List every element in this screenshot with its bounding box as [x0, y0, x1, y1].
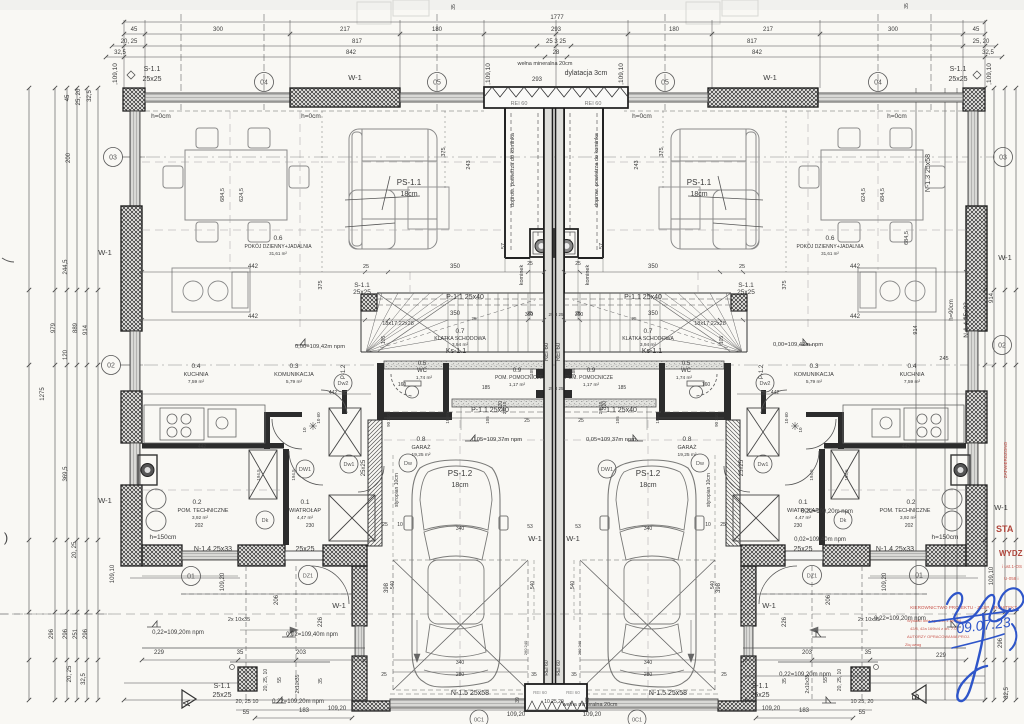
- svg-text:styropian 10cm: styropian 10cm: [706, 473, 712, 507]
- svg-text:DZ1: DZ1: [303, 574, 313, 580]
- svg-text:55: 55: [277, 677, 283, 683]
- svg-text:979: 979: [51, 322, 57, 333]
- svg-text:0,05=109,37m npm: 0,05=109,37m npm: [586, 437, 636, 443]
- wall: top lintel/window band N-1.1: [145, 93, 290, 102]
- svg-text:442: 442: [771, 390, 780, 396]
- center mineral wool band: [484, 87, 628, 108]
- svg-text:350: 350: [575, 312, 584, 318]
- wall: top lintel band N-1.2: [400, 93, 484, 102]
- svg-text:229: 229: [936, 653, 947, 659]
- wall: garage SW corner block: [352, 701, 390, 711]
- grid circles right: [994, 148, 1013, 167]
- svg-text:25x25: 25x25: [142, 76, 161, 83]
- svg-text:WC: WC: [681, 368, 692, 374]
- svg-text:5,79 m²: 5,79 m²: [806, 379, 823, 385]
- svg-text:4,47 m²: 4,47 m²: [297, 515, 314, 521]
- svg-text:25x25: 25x25: [361, 459, 367, 476]
- svg-text:280: 280: [456, 672, 465, 678]
- porch dashed outline + steps: [142, 566, 420, 700]
- svg-text:300: 300: [213, 27, 224, 33]
- interior: partition wiatrolap/garage: [368, 420, 382, 546]
- wall: left exterior: [130, 111, 140, 206]
- svg-text:,109,10: ,109,10: [618, 63, 625, 85]
- svg-text:25: 25: [381, 672, 387, 678]
- svg-text:202: 202: [905, 523, 914, 529]
- svg-text:296: 296: [998, 637, 1004, 648]
- svg-text:55: 55: [859, 710, 866, 716]
- svg-text:doprow. powietrza do kominka: doprow. powietrza do kominka: [510, 132, 516, 207]
- grid axis circles top: [255, 73, 274, 92]
- svg-text:203: 203: [802, 650, 813, 656]
- svg-text:GARAŻ: GARAŻ: [678, 444, 698, 451]
- svg-text:340: 340: [456, 526, 465, 532]
- interior: wall pom.tech/wiatrolap: [283, 449, 289, 545]
- svg-text:226: 226: [318, 616, 324, 627]
- svg-text:0.1: 0.1: [798, 499, 807, 506]
- svg-text:624,5: 624,5: [239, 188, 245, 202]
- svg-text:340: 340: [644, 526, 653, 532]
- svg-text:KOMUNIKACJA: KOMUNIKACJA: [274, 372, 314, 378]
- svg-text:194,5: 194,5: [291, 469, 296, 481]
- svg-text:160: 160: [702, 382, 711, 388]
- garage parking cross: [393, 560, 528, 690]
- svg-text:03: 03: [109, 155, 117, 162]
- svg-text:1777: 1777: [550, 15, 564, 21]
- interior: L wall komunikacja: [264, 412, 270, 449]
- svg-text:109,20: 109,20: [882, 572, 888, 591]
- svg-text:dylatacja 3cm: dylatacja 3cm: [565, 70, 608, 77]
- svg-text:0.9: 0.9: [513, 368, 522, 374]
- washing machine: [138, 455, 157, 485]
- svg-text:442: 442: [329, 390, 338, 396]
- svg-text:25: 25: [575, 261, 581, 267]
- svg-text:h=150cm: h=150cm: [150, 534, 177, 541]
- svg-text:20, 25, 10: 20, 25, 10: [837, 669, 843, 691]
- svg-text:10 60: 10 60: [316, 412, 321, 424]
- svg-text:296: 296: [83, 628, 89, 639]
- svg-text:105: 105: [571, 368, 576, 376]
- svg-text:35: 35: [865, 650, 872, 656]
- svg-text:25x25: 25x25: [793, 546, 812, 553]
- svg-text:3,92 m²: 3,92 m²: [192, 515, 209, 521]
- svg-text:B: B: [911, 693, 922, 700]
- svg-text:260 240: 260 240: [523, 640, 528, 655]
- interior: wall x344: [342, 390, 347, 414]
- svg-text:0.6: 0.6: [825, 235, 834, 242]
- laundry tubs: [146, 489, 166, 509]
- svg-text:POM. TECHNICZNE: POM. TECHNICZNE: [880, 508, 931, 514]
- svg-text:0,02=109,40m npm: 0,02=109,40m npm: [794, 537, 846, 543]
- svg-text:A: A: [182, 699, 193, 706]
- svg-text:kominek: kominek: [519, 265, 525, 286]
- svg-text:Dw2: Dw2: [337, 381, 348, 387]
- svg-text:01: 01: [187, 574, 195, 581]
- svg-text:PS-1.1: PS-1.1: [687, 178, 712, 187]
- svg-text:POM. TECHNICZNE: POM. TECHNICZNE: [178, 508, 229, 514]
- svg-text:442: 442: [902, 444, 911, 450]
- svg-text:540: 540: [530, 581, 536, 590]
- svg-text:350: 350: [450, 311, 461, 317]
- svg-text:REI 60: REI 60: [544, 660, 550, 676]
- svg-text:350: 350: [648, 264, 659, 270]
- svg-text:0.2: 0.2: [906, 499, 915, 506]
- svg-text:105: 105: [529, 368, 534, 376]
- svg-text:25, 20: 25, 20: [76, 88, 82, 105]
- svg-text:W-1: W-1: [998, 253, 1012, 262]
- svg-text:S-1.1: S-1.1: [738, 282, 754, 289]
- wall: garage door lintel N-1.5: [390, 699, 527, 708]
- svg-text:185: 185: [618, 385, 627, 391]
- svg-text:39: 39: [515, 697, 521, 703]
- svg-text:296: 296: [63, 628, 69, 639]
- dashed lintel line under top wall: [145, 110, 484, 112]
- svg-text:h=0cm: h=0cm: [632, 113, 652, 120]
- construction dashed lines living room: [142, 111, 544, 698]
- svg-text:10 60: 10 60: [445, 412, 450, 424]
- svg-text:W-1: W-1: [566, 534, 580, 543]
- svg-text:0C1: 0C1: [474, 718, 484, 724]
- svg-text:0,22=109,20m npm: 0,22=109,20m npm: [874, 616, 926, 622]
- svg-text:styropian 10cm: styropian 10cm: [394, 473, 400, 507]
- svg-text:S-1.1: S-1.1: [752, 683, 769, 690]
- svg-text:5,79 m²: 5,79 m²: [286, 379, 303, 385]
- svg-text:109,10: 109,10: [110, 564, 116, 583]
- svg-text:doprow. powietrza do kominka: doprow. powietrza do kominka: [594, 132, 600, 207]
- DZ1 door circles: [299, 566, 318, 585]
- svg-text:Dw: Dw: [696, 461, 704, 467]
- svg-text:25: 25: [720, 522, 726, 528]
- svg-text:25x25: 25x25: [739, 459, 745, 476]
- door arcs: [272, 374, 413, 604]
- svg-text:0.7: 0.7: [643, 328, 652, 335]
- svg-text:POKÓJ DZIENNY+JADALNIA: POKÓJ DZIENNY+JADALNIA: [244, 243, 312, 250]
- svg-text:90 210: 90 210: [386, 413, 391, 427]
- svg-text:375: 375: [659, 147, 665, 156]
- svg-text:P-1.2: P-1.2: [759, 364, 765, 379]
- svg-text:Dw1: Dw1: [343, 462, 354, 468]
- svg-text:10,25,20: 10,25,20: [544, 699, 564, 705]
- coffee table: [408, 187, 449, 229]
- svg-text:N-1.5 25x58: N-1.5 25x58: [649, 690, 687, 697]
- wall: stippled stairs/wc divider: [384, 361, 544, 369]
- svg-text:245: 245: [939, 356, 948, 362]
- svg-text:35: 35: [904, 3, 910, 9]
- top dimension lines: [104, 20, 1004, 88]
- svg-text:25: 25: [471, 316, 477, 321]
- svg-text:217: 217: [340, 27, 351, 33]
- svg-text:,109,10: ,109,10: [112, 63, 119, 85]
- svg-text:DZ1: DZ1: [807, 574, 817, 580]
- svg-text:h=90cm: h=90cm: [949, 299, 955, 321]
- level mark triangles: [147, 339, 479, 703]
- chimney shaft walls by party wall: [505, 107, 544, 293]
- svg-text:18cm: 18cm: [400, 191, 417, 198]
- svg-text:25: 25: [739, 264, 745, 270]
- svg-text:442: 442: [248, 314, 259, 320]
- svg-text:Złą uwag: Złą uwag: [905, 642, 921, 647]
- svg-text:10: 10: [302, 427, 307, 433]
- svg-text:45: 45: [65, 94, 71, 101]
- porch pillar S-1.1: [238, 667, 257, 691]
- svg-text:POM. POMOCNICZE: POM. POMOCNICZE: [495, 375, 544, 381]
- svg-text:wełna mineralna 20cm: wełna mineralna 20cm: [516, 61, 572, 67]
- svg-text:W-1: W-1: [332, 601, 346, 610]
- svg-text:260 240: 260 240: [577, 640, 582, 655]
- svg-text:04: 04: [260, 80, 268, 87]
- svg-text:1275: 1275: [40, 387, 46, 401]
- svg-text:32,5: 32,5: [1004, 687, 1010, 699]
- svg-text:03: 03: [999, 155, 1007, 162]
- svg-text:25 3 25: 25 3 25: [546, 39, 567, 45]
- svg-text:h=0cm: h=0cm: [887, 113, 907, 120]
- grid circles left: [104, 148, 123, 167]
- svg-text:55: 55: [243, 710, 250, 716]
- svg-text:U-058 i: U-058 i: [1004, 576, 1019, 581]
- svg-text:Dk: Dk: [840, 518, 847, 524]
- svg-text:35: 35: [237, 650, 244, 656]
- svg-text:375: 375: [318, 280, 324, 289]
- party wall left leaf: [544, 107, 553, 684]
- svg-text:31,61 m²: 31,61 m²: [269, 251, 287, 256]
- svg-text:105: 105: [485, 416, 490, 424]
- svg-text:35: 35: [318, 678, 324, 684]
- svg-text:S-1.1: S-1.1: [950, 66, 967, 73]
- svg-text:25: 25: [578, 418, 584, 424]
- svg-text:0.3: 0.3: [809, 363, 818, 370]
- interior dimension lines: [140, 111, 546, 672]
- svg-text:200: 200: [66, 152, 72, 163]
- svg-text:KLATKA SCHODOWA: KLATKA SCHODOWA: [622, 336, 674, 342]
- svg-text:S-1.1: S-1.1: [144, 66, 161, 73]
- svg-text:KUCHNIA: KUCHNIA: [184, 372, 209, 378]
- svg-text:0,22=109,20m npm: 0,22=109,20m npm: [272, 699, 324, 705]
- svg-text:05: 05: [661, 80, 669, 87]
- svg-text:18cm: 18cm: [690, 191, 707, 198]
- svg-text:0.6: 0.6: [273, 235, 282, 242]
- svg-text:350: 350: [450, 264, 461, 270]
- svg-text:202: 202: [195, 523, 204, 529]
- svg-text:340: 340: [644, 660, 653, 666]
- svg-text:7,59 m²: 7,59 m²: [904, 379, 921, 385]
- svg-text:0.9: 0.9: [587, 368, 596, 374]
- svg-text:1,74 m²: 1,74 m²: [416, 375, 433, 381]
- svg-text:19,25 m²: 19,25 m²: [678, 452, 697, 458]
- svg-text:,109,10: ,109,10: [986, 63, 993, 85]
- svg-text:684,5: 684,5: [904, 231, 910, 245]
- svg-text:): ): [4, 530, 8, 545]
- svg-text:W-1: W-1: [994, 503, 1008, 512]
- svg-text:25: 25: [527, 261, 533, 267]
- svg-text:25x25: 25x25: [353, 289, 371, 296]
- svg-text:2x10x35: 2x10x35: [295, 674, 301, 693]
- svg-text:REI 60: REI 60: [556, 342, 562, 361]
- svg-text:0.5: 0.5: [682, 361, 691, 367]
- svg-text:S-1.1: S-1.1: [214, 683, 231, 690]
- svg-text:540: 540: [570, 581, 576, 590]
- svg-text:10: 10: [705, 522, 711, 528]
- svg-text:25: 25: [524, 418, 530, 424]
- svg-text:914: 914: [83, 324, 89, 335]
- svg-text:105: 105: [615, 416, 620, 424]
- svg-text:183: 183: [799, 708, 810, 714]
- svg-text:N-1.3 25x58: N-1.3 25x58: [925, 154, 932, 192]
- svg-text:25, 20: 25, 20: [973, 39, 990, 45]
- svg-text:842: 842: [752, 50, 763, 56]
- svg-text:243: 243: [634, 160, 640, 169]
- svg-text:109,20: 109,20: [220, 572, 226, 591]
- svg-text:18cm: 18cm: [451, 482, 468, 489]
- svg-text:914: 914: [989, 292, 995, 303]
- svg-text:25: 25: [631, 316, 637, 321]
- party wall footing block: [525, 684, 587, 711]
- svg-text:25x25: 25x25: [948, 76, 967, 83]
- svg-text:684,5: 684,5: [220, 188, 226, 202]
- svg-text:0.8: 0.8: [416, 436, 425, 443]
- svg-text:,109,10: ,109,10: [485, 63, 492, 85]
- svg-text:217: 217: [763, 27, 774, 33]
- svg-text:4,47 m²: 4,47 m²: [795, 515, 812, 521]
- svg-text:32,5: 32,5: [982, 50, 994, 56]
- svg-text:18x17,22x28: 18x17,22x28: [382, 321, 414, 327]
- svg-text:KUCHNIA: KUCHNIA: [900, 372, 925, 378]
- blue signature: [929, 588, 1023, 701]
- svg-text:WIATROŁAP: WIATROŁAP: [787, 508, 819, 514]
- svg-text:230: 230: [306, 523, 315, 529]
- dining table with chairs: [163, 128, 309, 242]
- svg-text:REI 60: REI 60: [511, 101, 528, 107]
- svg-text:25: 25: [382, 522, 388, 528]
- svg-text:914: 914: [913, 325, 919, 334]
- svg-text:53: 53: [575, 524, 581, 530]
- svg-text:WYDZ: WYDZ: [999, 549, 1023, 558]
- svg-text:251: 251: [73, 628, 79, 639]
- svg-text:REI 60: REI 60: [533, 690, 547, 695]
- svg-text:183: 183: [299, 708, 310, 714]
- vent shaft squares with X: [249, 408, 375, 541]
- svg-text:0.3: 0.3: [289, 363, 298, 370]
- svg-text:POKÓJ DZIENNY+JADALNIA: POKÓJ DZIENNY+JADALNIA: [796, 243, 864, 250]
- svg-text:624,5: 624,5: [861, 188, 867, 202]
- svg-text:293: 293: [551, 27, 562, 33]
- grid axis dashed verticals: [181, 14, 931, 110]
- sofa: [349, 129, 437, 249]
- svg-text:PS-1.1: PS-1.1: [397, 178, 422, 187]
- svg-text:10 60: 10 60: [784, 412, 789, 424]
- svg-text:398: 398: [716, 582, 722, 593]
- svg-text:90 210: 90 210: [714, 413, 719, 427]
- svg-text:109,20: 109,20: [507, 712, 526, 718]
- svg-text:350: 350: [648, 311, 659, 317]
- svg-text:REI 60: REI 60: [544, 342, 550, 361]
- svg-text:W-1: W-1: [348, 73, 362, 82]
- stair treads: [366, 293, 535, 352]
- svg-text:25 3 25: 25 3 25: [548, 386, 564, 391]
- svg-text:57: 57: [501, 243, 507, 249]
- toilet: [404, 381, 421, 386]
- svg-text:2,5 10: 2,5 10: [598, 401, 603, 414]
- svg-text:280: 280: [644, 672, 653, 678]
- svg-text:0.8: 0.8: [682, 436, 691, 443]
- svg-text:1,74 m²: 1,74 m²: [676, 375, 693, 381]
- svg-text:442: 442: [198, 444, 207, 450]
- svg-text:25x25: 25x25: [750, 692, 769, 699]
- svg-text:KOMUNIKACJA: KOMUNIKACJA: [794, 372, 834, 378]
- faint furniture scan artifacts top: [357, 0, 758, 24]
- wc partition walls: [377, 363, 384, 420]
- svg-text:25x25: 25x25: [295, 546, 314, 553]
- svg-text:842: 842: [346, 50, 357, 56]
- wall: stippled wc/garage divider: [452, 399, 544, 407]
- svg-text:206: 206: [826, 594, 832, 605]
- svg-text:W-1: W-1: [763, 73, 777, 82]
- svg-text:2x 10x35: 2x 10x35: [228, 617, 250, 623]
- svg-text:300: 300: [888, 27, 899, 33]
- svg-text:h=150cm: h=150cm: [932, 534, 959, 541]
- svg-text:P-1.1 25x40: P-1.1 25x40: [446, 294, 484, 301]
- svg-text:kominek: kominek: [585, 265, 591, 286]
- svg-text:442: 442: [850, 314, 861, 320]
- svg-text:340: 340: [456, 660, 465, 666]
- svg-text:0,00=109,42m npm: 0,00=109,42m npm: [295, 344, 345, 350]
- svg-text:05: 05: [433, 80, 441, 87]
- svg-text:0.1: 0.1: [300, 499, 309, 506]
- svg-text:h=0cm: h=0cm: [151, 113, 171, 120]
- stair enclosure lines: [361, 293, 544, 352]
- svg-text:18x17,22x28: 18x17,22x28: [694, 321, 726, 327]
- svg-text:W-1: W-1: [98, 248, 112, 257]
- svg-text:45: 45: [973, 27, 980, 33]
- svg-text:0,02=109,40m npm: 0,02=109,40m npm: [286, 632, 338, 638]
- svg-text:817: 817: [747, 39, 758, 45]
- svg-text:2,5 10: 2,5 10: [502, 401, 507, 414]
- svg-text:20, 25 10: 20, 25 10: [236, 699, 259, 705]
- svg-text:10: 10: [798, 427, 803, 433]
- svg-text:Dk: Dk: [262, 518, 269, 524]
- svg-text:244,5: 244,5: [63, 259, 69, 275]
- svg-text:0.4: 0.4: [907, 363, 916, 370]
- svg-text:32,5: 32,5: [114, 50, 126, 56]
- svg-text:Dw2: Dw2: [759, 381, 770, 387]
- kitchen island block: [172, 268, 250, 312]
- svg-text:105: 105: [719, 336, 725, 345]
- svg-text:W-1: W-1: [98, 496, 112, 505]
- svg-text:889: 889: [73, 322, 79, 333]
- svg-text:120: 120: [63, 349, 69, 360]
- svg-text:DW1: DW1: [601, 467, 613, 473]
- svg-text:WC: WC: [417, 368, 428, 374]
- svg-text:N-1.4 25x33: N-1.4 25x33: [194, 546, 232, 553]
- svg-text:25x25: 25x25: [737, 289, 755, 296]
- svg-text:20, 25, 10: 20, 25, 10: [263, 669, 269, 691]
- svg-text:243: 243: [466, 160, 472, 169]
- svg-text:39: 39: [585, 697, 591, 703]
- wall: bottom of living part: [142, 545, 182, 566]
- svg-text:i ust.1-OS: i ust.1-OS: [1002, 564, 1022, 569]
- svg-text:35: 35: [782, 678, 788, 684]
- bottom dimension lines: [0, 578, 1016, 720]
- svg-text:10 25, 20: 10 25, 20: [851, 699, 874, 705]
- svg-text:203: 203: [296, 650, 307, 656]
- svg-text:57: 57: [599, 243, 605, 249]
- svg-text:W-1: W-1: [528, 534, 542, 543]
- svg-text:35: 35: [451, 4, 457, 10]
- svg-text:45: 45: [131, 27, 138, 33]
- svg-text:REI 60: REI 60: [566, 690, 580, 695]
- svg-text:180: 180: [669, 27, 680, 33]
- svg-text:109,20: 109,20: [762, 706, 781, 712]
- svg-text:h=0cm: h=0cm: [301, 113, 321, 120]
- svg-text:25: 25: [363, 264, 369, 270]
